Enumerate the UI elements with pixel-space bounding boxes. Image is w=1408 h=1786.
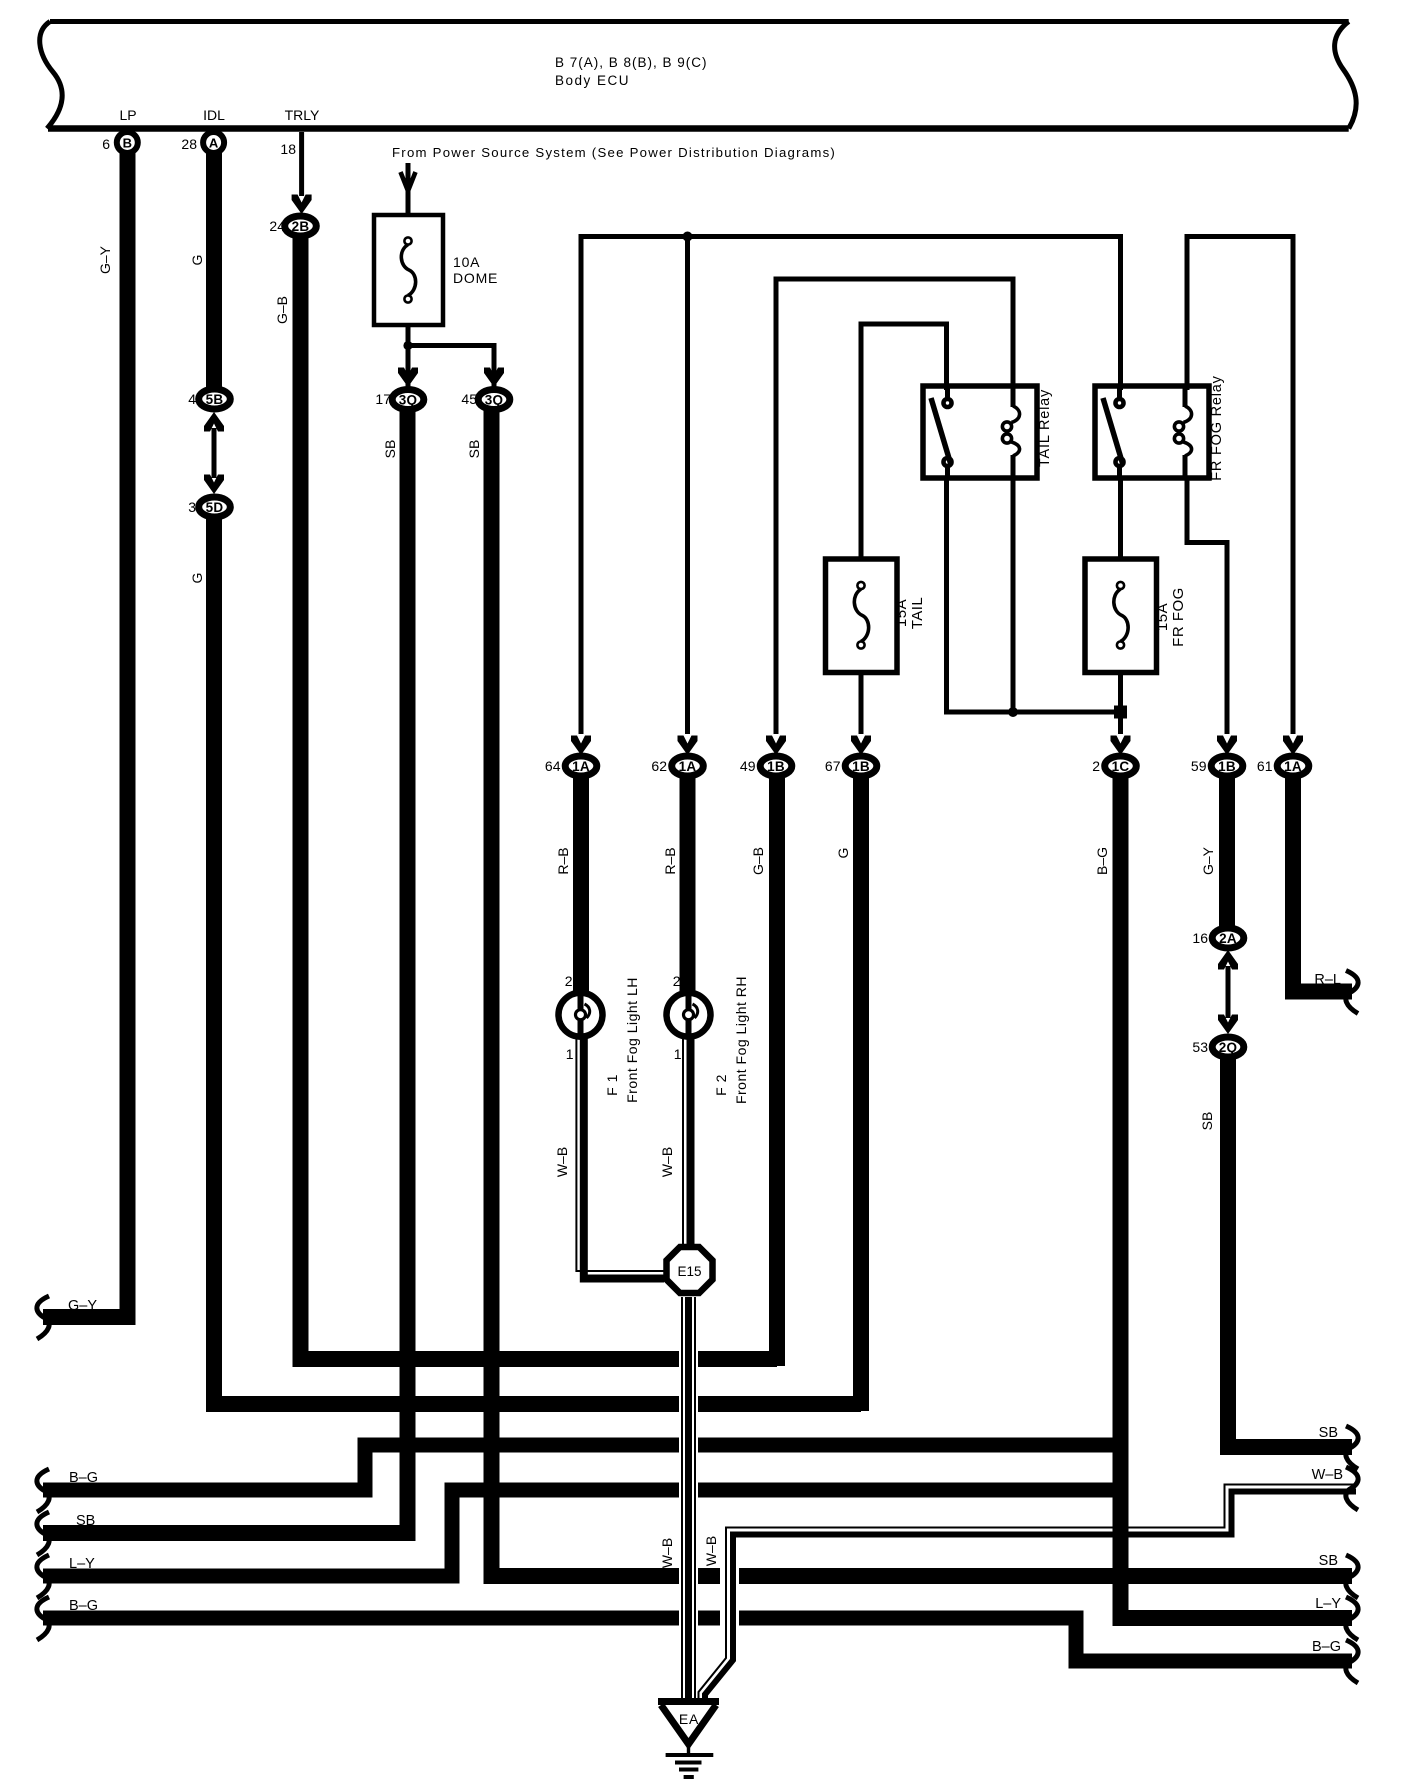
- svg-text:1A: 1A: [679, 759, 697, 774]
- svg-text:1C: 1C: [1112, 759, 1130, 774]
- connector 2 1C: [1092, 756, 1136, 776]
- fuse 15A FR FOG box: [1085, 559, 1157, 673]
- svg-text:G: G: [189, 573, 205, 584]
- arrow down into 2Q: [1218, 1015, 1238, 1035]
- fuse 15A FR FOG element: [1114, 582, 1128, 649]
- wavy end SB right 1: [1346, 1426, 1358, 1469]
- svg-text:DOME: DOME: [453, 270, 498, 286]
- svg-text:5D: 5D: [206, 500, 224, 515]
- wire power feed into DOME fuse: [406, 163, 411, 215]
- svg-text:IDL: IDL: [203, 107, 225, 123]
- arrow up into 2A: [1218, 950, 1238, 970]
- svg-text:L–Y: L–Y: [69, 1556, 95, 1572]
- svg-text:B 7(A), B 8(B), B 9(C): B 7(A), B 8(B), B 9(C): [555, 55, 708, 70]
- wire riser from 64-1A up and right to FR FOG relay switch: [581, 237, 1121, 735]
- svg-text:SB: SB: [1319, 1553, 1338, 1569]
- bus B-G bottom left to right wavy end: [43, 1618, 1352, 1661]
- connector 61 1A: [1257, 756, 1309, 776]
- pin LP of Body ECU: [102, 107, 138, 153]
- svg-text:1B: 1B: [767, 759, 785, 774]
- svg-text:FR FOG: FR FOG: [1170, 587, 1187, 647]
- label 15A TAIL: [893, 597, 926, 630]
- svg-text:B–G: B–G: [1094, 847, 1110, 875]
- wavy end L-Y right: [1346, 1597, 1358, 1640]
- svg-text:G–B: G–B: [750, 847, 766, 875]
- svg-text:16: 16: [1192, 930, 1208, 946]
- ground wire W-B below E15 to EA: [682, 1297, 695, 1700]
- label F 1 Front Fog Light LH: [604, 977, 640, 1103]
- svg-text:5B: 5B: [206, 392, 224, 407]
- ground connector E15: [667, 1247, 713, 1293]
- svg-text:1B: 1B: [852, 759, 870, 774]
- svg-text:1A: 1A: [572, 759, 590, 774]
- wire 15A FR FOG fuse output to connector 2: [1118, 672, 1123, 734]
- svg-text:G–Y: G–Y: [1200, 846, 1216, 875]
- svg-text:TAIL Relay: TAIL Relay: [1037, 389, 1053, 467]
- wire G-Y from LP pin 6 down left side: [43, 150, 128, 1317]
- junction dot at FR FOG fuse output: [1114, 706, 1127, 719]
- arrow down into 1B-49: [766, 736, 786, 756]
- svg-text:1: 1: [566, 1046, 574, 1062]
- wire W-B from fog LH pin1 to E15: [576, 1037, 664, 1279]
- arrow up into 5B: [204, 412, 224, 432]
- arrow down into 1A-61: [1283, 736, 1303, 756]
- pin TRLY of Body ECU: [280, 107, 320, 157]
- svg-text:G–Y: G–Y: [68, 1298, 97, 1314]
- wire W-B from fog RH pin1 to E15: [683, 1037, 691, 1248]
- svg-text:R–B: R–B: [662, 847, 678, 874]
- wire from junction down to 62-1A: [685, 237, 690, 735]
- svg-text:W–B: W–B: [1312, 1467, 1343, 1483]
- svg-text:R–B: R–B: [555, 847, 571, 874]
- fuse 10A DOME element: [401, 237, 415, 302]
- svg-text:49: 49: [740, 758, 756, 774]
- connector 64 1A: [545, 756, 597, 776]
- svg-text:TAIL: TAIL: [909, 597, 926, 630]
- svg-text:R–L: R–L: [1314, 972, 1341, 988]
- wire 18 from TRLY pin: [299, 132, 304, 196]
- svg-text:4: 4: [188, 391, 196, 407]
- wire G from 67-1B down to bus: [853, 777, 869, 1411]
- junction dot at 62 riser: [683, 232, 693, 242]
- feed arrow chevron: [401, 172, 416, 191]
- svg-text:G–Y: G–Y: [97, 245, 113, 274]
- svg-text:W–B: W–B: [659, 1538, 675, 1568]
- wire FR FOG coil feed from 61-1A riser: [1187, 237, 1293, 735]
- svg-text:B–G: B–G: [1312, 1639, 1341, 1655]
- svg-text:15A: 15A: [1154, 603, 1171, 631]
- wire FR FOG coil low side jog to 59-1B: [1187, 478, 1227, 734]
- arrow down into 3Q-45: [484, 368, 504, 388]
- connector 16 2A: [1192, 928, 1243, 948]
- wire R-B from 64-1A to fog light LH: [573, 777, 589, 1000]
- svg-text:L–Y: L–Y: [1315, 1596, 1341, 1612]
- svg-text:53: 53: [1192, 1039, 1208, 1055]
- svg-text:15A: 15A: [893, 599, 910, 627]
- svg-text:TRLY: TRLY: [285, 107, 320, 123]
- svg-text:6: 6: [102, 136, 110, 152]
- svg-text:3Q: 3Q: [399, 392, 418, 407]
- wire G from 5D down to bottom then right to 67-1B riser: [214, 518, 861, 1404]
- svg-text:FR FOG Relay: FR FOG Relay: [1209, 375, 1225, 480]
- fuse 15A TAIL element: [854, 582, 868, 649]
- svg-text:64: 64: [545, 758, 561, 774]
- svg-text:SB: SB: [1199, 1112, 1215, 1131]
- wire W-B from EA ground up right to wavy end: [699, 1485, 1357, 1701]
- svg-text:A: A: [209, 136, 219, 151]
- ground point EA: [658, 1702, 719, 1778]
- svg-text:E15: E15: [677, 1264, 701, 1279]
- wire from 49-1B up right down to TAIL relay coil: [776, 279, 1013, 734]
- svg-text:SB: SB: [466, 440, 482, 459]
- connector 17 3Q: [375, 390, 423, 410]
- connector 53 2Q: [1192, 1037, 1243, 1057]
- wavy end R-L right: [1346, 971, 1358, 1014]
- svg-text:18: 18: [280, 141, 296, 157]
- svg-text:SB: SB: [382, 440, 398, 459]
- connector 3 5D: [188, 497, 230, 517]
- wire B-G from 2-1C down then right to L-Y wavy end: [1121, 777, 1353, 1618]
- svg-text:3: 3: [188, 499, 196, 515]
- svg-text:45: 45: [461, 391, 477, 407]
- svg-text:1A: 1A: [1284, 759, 1302, 774]
- white casing for E15 ground wire: [679, 1300, 698, 1695]
- svg-text:G: G: [189, 255, 205, 266]
- wire DOME fuse output: [406, 325, 411, 390]
- svg-text:B–G: B–G: [69, 1598, 98, 1614]
- svg-text:24: 24: [269, 218, 285, 234]
- wavy end B-G right: [1346, 1640, 1358, 1683]
- wire R-B from 62-1A to fog light RH: [680, 777, 696, 1000]
- wire G-B from 49-1B down to bus: [769, 777, 785, 1366]
- svg-text:Body ECU: Body ECU: [555, 73, 630, 88]
- front fog light LH bulb: [559, 993, 603, 1037]
- svg-text:SB: SB: [1319, 1425, 1338, 1441]
- wire TAIL switch output down to junction bus: [947, 478, 1121, 712]
- fuse 10A DOME box: [374, 215, 443, 325]
- connector 24 2B: [269, 216, 316, 236]
- svg-text:G: G: [835, 848, 851, 859]
- svg-text:17: 17: [375, 391, 391, 407]
- junction dot DOME split: [403, 341, 412, 350]
- svg-text:3Q: 3Q: [485, 392, 504, 407]
- arrow down into 2B: [292, 195, 312, 215]
- svg-text:1: 1: [674, 1046, 682, 1062]
- arrow down into 1A-64: [571, 736, 591, 756]
- wire link 2A to 2Q: [1226, 966, 1231, 1018]
- svg-text:2: 2: [673, 973, 681, 989]
- svg-text:W–B: W–B: [659, 1147, 675, 1177]
- svg-text:59: 59: [1191, 758, 1207, 774]
- label 15A FR FOG: [1154, 587, 1187, 647]
- wire G-B from 2B down then right to 49-1B riser: [301, 237, 778, 1359]
- wire SB from 17-3Q down then left to wavy end: [43, 410, 408, 1533]
- arrow down into 5D: [204, 475, 224, 495]
- connector 45 3Q: [461, 390, 509, 410]
- connector 67 1B: [825, 756, 877, 776]
- svg-text:2A: 2A: [1219, 931, 1237, 946]
- svg-text:G–B: G–B: [274, 296, 290, 324]
- svg-text:2: 2: [1092, 758, 1100, 774]
- svg-text:Front Fog Light RH: Front Fog Light RH: [733, 976, 749, 1104]
- connector 49 1B: [740, 756, 792, 776]
- svg-text:LP: LP: [119, 107, 136, 123]
- wavy end B-G left 1: [37, 1469, 49, 1512]
- svg-text:1B: 1B: [1218, 759, 1236, 774]
- junction dot TAIL coil: [1008, 707, 1018, 717]
- svg-text:2Q: 2Q: [1219, 1040, 1238, 1055]
- wire G-Y from 59-1B to connector 2A: [1219, 777, 1235, 930]
- connector 4 5B: [188, 389, 230, 409]
- arrow down into 1B-67: [851, 736, 871, 756]
- wire FR FOG switch output to FR FOG fuse: [1118, 478, 1123, 561]
- connector 59 1B: [1191, 756, 1243, 776]
- wavy end W-B right: [1346, 1467, 1358, 1510]
- label F 2 Front Fog Light RH: [713, 976, 749, 1104]
- relay FR FOG Relay: [1095, 386, 1209, 478]
- arrow down into 3Q-17: [398, 368, 418, 388]
- wavy end G-Y left: [37, 1296, 49, 1339]
- arrow down into 1A-62: [678, 736, 698, 756]
- wire TAIL fuse top to TAIL relay switch: [861, 324, 947, 561]
- svg-text:W–B: W–B: [554, 1147, 570, 1177]
- svg-text:B: B: [123, 136, 132, 151]
- front fog light RH bulb: [667, 993, 711, 1037]
- svg-text:Front Fog Light LH: Front Fog Light LH: [624, 977, 640, 1103]
- svg-text:28: 28: [181, 136, 197, 152]
- arrow down into 1C-2: [1111, 736, 1131, 756]
- svg-text:10A: 10A: [453, 254, 480, 270]
- svg-text:61: 61: [1257, 758, 1273, 774]
- bus L-Y left stepping up to 2-1C riser: [43, 1490, 1126, 1576]
- bus B-G left to 2-1C riser: [43, 1445, 1126, 1490]
- svg-text:F 2: F 2: [713, 1074, 729, 1096]
- svg-text:W–B: W–B: [703, 1536, 719, 1566]
- wire R-L from 61-1A down then right to wavy end: [1293, 777, 1352, 992]
- svg-text:EA: EA: [679, 1711, 699, 1727]
- svg-text:2B: 2B: [292, 219, 310, 234]
- svg-text:B–G: B–G: [69, 1470, 98, 1486]
- svg-text:SB: SB: [76, 1513, 95, 1529]
- svg-text:62: 62: [651, 758, 667, 774]
- arrow down into 1B-59: [1217, 736, 1237, 756]
- wire SB from 45-3Q down then right to wavy end: [492, 410, 1353, 1576]
- svg-text:From Power Source System (See: From Power Source System (See Power Dist…: [392, 145, 836, 160]
- wire DOME split to 45: [408, 346, 494, 391]
- wire link 5B to 5D: [212, 428, 217, 478]
- svg-text:2: 2: [565, 973, 573, 989]
- wire TAIL coil low side down: [1011, 478, 1016, 712]
- wire SB from 53-2Q down then right to wavy end: [1228, 1058, 1352, 1447]
- fuse 15A TAIL box: [826, 559, 898, 673]
- connector 62 1A: [651, 756, 703, 776]
- Body ECU box: [40, 22, 1356, 129]
- wavy end L-Y left: [37, 1555, 49, 1598]
- wire 15A TAIL fuse output to connector 67: [859, 672, 864, 734]
- svg-text:67: 67: [825, 758, 841, 774]
- pin IDL of Body ECU: [181, 107, 225, 153]
- wire G from IDL pin 28 to connector 5B: [206, 150, 222, 388]
- svg-text:F 1: F 1: [604, 1074, 620, 1096]
- wavy end SB left: [37, 1512, 49, 1555]
- relay TAIL Relay: [923, 386, 1037, 478]
- label 10A DOME: [453, 254, 498, 286]
- wavy end SB right 2: [1346, 1555, 1358, 1598]
- wavy end B-G left 2: [37, 1597, 49, 1640]
- white casing for right W-B ground wire: [720, 1545, 739, 1650]
